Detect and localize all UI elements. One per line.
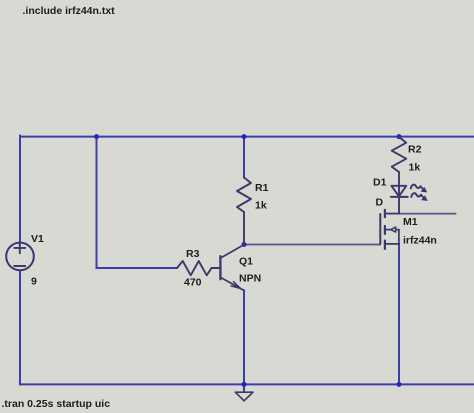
svg-text:R1: R1 [255, 182, 269, 194]
svg-text:Q1: Q1 [239, 256, 253, 268]
svg-text:1k: 1k [409, 162, 421, 174]
svg-text:.include irfz44n.txt: .include irfz44n.txt [23, 5, 116, 17]
svg-text:NPN: NPN [239, 273, 261, 285]
svg-text:R3: R3 [186, 248, 200, 260]
svg-text:D1: D1 [373, 177, 387, 189]
svg-text:1k: 1k [255, 199, 267, 211]
svg-text:M1: M1 [403, 216, 418, 228]
svg-text:470: 470 [184, 277, 202, 289]
svg-text:9: 9 [31, 276, 37, 288]
svg-text:.tran 0.25s startup uic: .tran 0.25s startup uic [2, 398, 111, 410]
svg-text:irfz44n: irfz44n [403, 235, 437, 247]
svg-text:V1: V1 [31, 233, 44, 245]
svg-text:R2: R2 [408, 143, 422, 155]
svg-text:D: D [376, 197, 384, 209]
